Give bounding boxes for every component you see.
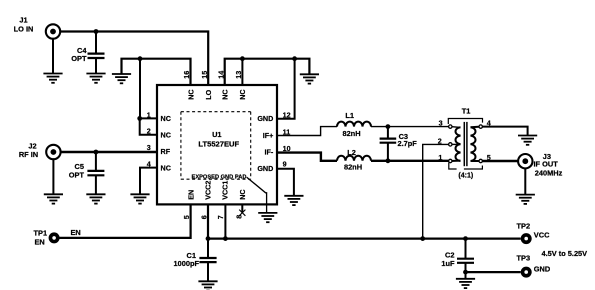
- svg-text:GND: GND: [534, 265, 551, 274]
- svg-text:1: 1: [438, 153, 442, 162]
- wire C2 bottom to TP3: [466, 271, 521, 273]
- wire LO net J1 to U1 pin 15: [56, 32, 208, 86]
- svg-text:4: 4: [147, 160, 151, 169]
- svg-text:L1: L1: [345, 111, 354, 120]
- ground under J3: [516, 195, 535, 204]
- wire IF- net U1 pin 10 to L2: [277, 153, 337, 161]
- node LO/C4 tap junction: [94, 29, 99, 34]
- svg-text:EN: EN: [35, 238, 45, 247]
- op-amp U1 LT5527EUF body: [157, 85, 277, 204]
- svg-text:TP1: TP1: [34, 228, 48, 237]
- capacitor C1 1000pF: [174, 239, 217, 282]
- svg-text:4.5V to 5.25V: 4.5V to 5.25V: [542, 249, 588, 258]
- wire U1 pin 4 to ground: [140, 168, 157, 194]
- svg-text:GND: GND: [257, 164, 273, 173]
- svg-text:NC: NC: [238, 189, 247, 199]
- svg-text:13: 13: [234, 71, 243, 79]
- node VCC junction at T1 tap: [420, 236, 425, 241]
- svg-text:J1: J1: [19, 16, 27, 25]
- capacitor C5: [69, 152, 105, 194]
- node pin 12 junction: [292, 56, 297, 61]
- svg-text:IF+: IF+: [263, 131, 274, 140]
- svg-text:2.7pF: 2.7pF: [398, 139, 418, 148]
- ground under J1: [43, 74, 62, 83]
- node VCC junction at pin 6 / C1: [206, 236, 211, 241]
- test point TP3 GND: [517, 254, 551, 278]
- svg-text:TP2: TP2: [517, 222, 531, 231]
- svg-text:OPT: OPT: [69, 170, 85, 179]
- wire U1 pin 9 to ground: [277, 169, 294, 196]
- svg-text:EN: EN: [71, 228, 81, 237]
- ground at T1 pin 4: [518, 136, 537, 145]
- svg-text:12: 12: [283, 111, 291, 120]
- ground right of U1 top: [300, 74, 319, 83]
- svg-text:NC: NC: [161, 114, 171, 123]
- svg-text:LT5527EUF: LT5527EUF: [198, 140, 239, 149]
- wire L2 to T1 pin 1: [371, 160, 449, 162]
- svg-text:L2: L2: [347, 148, 356, 157]
- ground under J2: [44, 194, 63, 203]
- svg-text:15: 15: [200, 71, 209, 79]
- svg-text:VCC2: VCC2: [204, 181, 213, 200]
- wire L1 to T1 pin 3: [371, 126, 449, 128]
- svg-text:16: 16: [182, 71, 191, 79]
- T1 top bracket: [448, 119, 482, 125]
- wire RF net J2 to U1 pin 3: [56, 151, 157, 153]
- svg-text:2: 2: [147, 127, 151, 136]
- svg-text:NC: NC: [161, 164, 171, 173]
- ground under C5: [86, 194, 105, 203]
- svg-text:1uF: 1uF: [441, 259, 455, 268]
- wire T1 pin 5 to J3: [482, 160, 522, 162]
- test point TP1: [34, 228, 60, 246]
- svg-text:14: 14: [216, 71, 225, 79]
- svg-text:RF IN: RF IN: [19, 150, 38, 159]
- capacitor C2 1uF: [441, 239, 474, 279]
- svg-text:NC: NC: [238, 89, 247, 99]
- svg-text:LO IN: LO IN: [14, 25, 34, 34]
- T1 ratio bracket: [449, 163, 483, 170]
- svg-text:NC: NC: [221, 89, 230, 99]
- svg-text:9: 9: [283, 160, 287, 169]
- connector J3: [518, 152, 563, 195]
- U1 pin 8 stub with no-connect X: [239, 204, 245, 215]
- inductor L2 82nH: [337, 148, 371, 172]
- ground under C4: [86, 74, 105, 83]
- svg-text:NC: NC: [186, 89, 195, 99]
- wire T1 pin 2 center tap to VCC rail: [423, 144, 449, 238]
- capacitor C4: [71, 32, 104, 74]
- wire IF+ net U1 pin 11 to L1: [277, 127, 337, 136]
- svg-text:OPT: OPT: [71, 54, 87, 63]
- test point TP2 VCC: [517, 222, 551, 244]
- svg-text:EN: EN: [186, 190, 195, 200]
- wire ground net to U1 pins 14,13,12: [225, 59, 310, 119]
- inductor L1 82nH: [337, 111, 371, 138]
- wire EN net TP1 to U1 pin 5: [57, 204, 191, 238]
- svg-text:82nH: 82nH: [342, 129, 360, 138]
- svg-text:GND: GND: [257, 114, 273, 123]
- svg-text:NC: NC: [161, 131, 171, 140]
- svg-text:T1: T1: [462, 107, 471, 116]
- node VCC junction at pin 7: [223, 236, 228, 241]
- svg-text:5: 5: [182, 215, 191, 219]
- ground under pin 9 wire: [284, 196, 303, 205]
- U1 exposed pad dashed outline: [181, 112, 251, 180]
- connector J2: [19, 142, 61, 194]
- svg-text:IF OUT: IF OUT: [534, 160, 559, 169]
- node C3 top junction: [386, 124, 391, 129]
- svg-text:EXPOSED GND PAD: EXPOSED GND PAD: [192, 174, 247, 180]
- wire T1 pin 4 to ground: [482, 127, 527, 135]
- ground under C2: [456, 279, 475, 288]
- svg-text:3: 3: [147, 143, 151, 152]
- wire VCC rail U1 pins 6,7 to TP2: [208, 204, 521, 238]
- node pin 13 junction: [240, 56, 245, 61]
- svg-text:82nH: 82nH: [344, 162, 362, 171]
- connector J1: [14, 16, 61, 74]
- svg-text:TP3: TP3: [517, 254, 531, 263]
- wire exposed pad to ground: [247, 177, 267, 213]
- capacitor C3 2.7pF: [380, 127, 418, 161]
- svg-text:VCC: VCC: [534, 231, 550, 240]
- svg-text:1000pF: 1000pF: [174, 259, 200, 268]
- svg-text:240MHz: 240MHz: [535, 169, 563, 178]
- transformer T1 4:1: [449, 107, 483, 167]
- node junction on ground wire to pin 1: [138, 56, 143, 61]
- svg-text:RF: RF: [161, 147, 171, 156]
- ground symbol left of U1: [112, 74, 131, 83]
- svg-text:7: 7: [216, 215, 225, 219]
- svg-text:C2: C2: [445, 251, 454, 260]
- svg-text:VCC1: VCC1: [221, 181, 230, 200]
- node C3 bottom junction: [386, 158, 391, 163]
- ground net to U1 pins 16,1,2: [122, 59, 191, 135]
- ground under pin 4 wire: [130, 194, 149, 203]
- svg-text:U1: U1: [212, 130, 221, 139]
- svg-text:LO: LO: [204, 89, 213, 99]
- svg-text:3: 3: [439, 118, 443, 127]
- node junction pin1/pin2 branch: [137, 116, 142, 121]
- svg-text:1: 1: [147, 110, 151, 119]
- node VCC junction at C2: [463, 236, 468, 241]
- node RF/C5 tap junction: [94, 150, 99, 155]
- ground under C1: [198, 281, 217, 290]
- ground for exposed pad: [258, 213, 277, 222]
- svg-text:IF-: IF-: [265, 147, 274, 156]
- svg-text:(4:1): (4:1): [458, 172, 473, 179]
- node junction C2 bottom / TP3 / ground: [463, 270, 468, 275]
